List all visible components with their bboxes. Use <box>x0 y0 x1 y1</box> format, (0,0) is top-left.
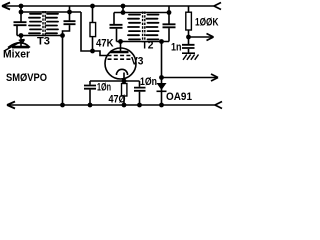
svg-text:V3: V3 <box>131 56 144 68</box>
svg-text:1n: 1n <box>171 42 182 54</box>
svg-text:1Øn: 1Øn <box>97 82 111 94</box>
svg-text:OA91: OA91 <box>166 91 192 103</box>
svg-text:Mixer: Mixer <box>3 49 31 61</box>
svg-text:T2: T2 <box>142 40 154 52</box>
svg-text:47Ø: 47Ø <box>109 94 126 106</box>
svg-text:T3: T3 <box>37 36 50 48</box>
svg-text:47K: 47K <box>96 38 114 50</box>
svg-text:1ØØK: 1ØØK <box>195 17 219 29</box>
svg-text:SMØVPO: SMØVPO <box>6 72 47 84</box>
svg-text:1Øn: 1Øn <box>140 76 157 88</box>
